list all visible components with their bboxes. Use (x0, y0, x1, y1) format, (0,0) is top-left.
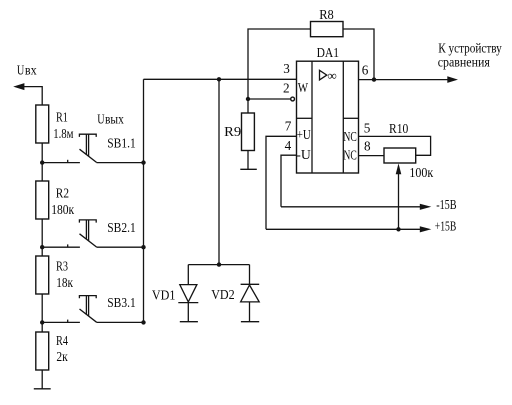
node diode branch junction (217, 77, 221, 81)
switch SB1.1 (42, 134, 96, 162)
svg-text:U: U (17, 63, 25, 78)
wire down to diodes (218, 79, 220, 264)
VD1 bottom terminal (180, 321, 198, 323)
svg-text:SB3.1: SB3.1 (107, 295, 135, 310)
wire diode tee (188, 264, 249, 266)
node R3-R4 junction (40, 320, 44, 324)
switch SB3.1 (42, 296, 96, 323)
svg-text:2: 2 (283, 81, 290, 96)
wire bus to pin 3 (144, 78, 297, 80)
svg-text:SB2.1: SB2.1 (107, 220, 135, 235)
node R1-R2 junction (40, 160, 44, 164)
wire pin 6 output (359, 79, 449, 81)
svg-text:-15В: -15В (436, 197, 457, 212)
ground (bottom of R4) (34, 388, 51, 390)
VD2 bottom terminal (241, 321, 259, 323)
svg-text:W: W (298, 80, 309, 95)
wire +15V rail (266, 228, 421, 230)
resistor R2 (36, 181, 49, 219)
wire wiper to +15V rail (398, 172, 400, 229)
node SB3.1-bus junction (141, 320, 145, 324)
svg-text:VD2: VD2 (211, 287, 235, 302)
svg-text:1.8м: 1.8м (53, 126, 74, 141)
wire feedback right leg (343, 29, 374, 80)
svg-text:U: U (97, 112, 105, 127)
svg-text:6: 6 (362, 63, 369, 78)
svg-text:+U: +U (297, 127, 311, 142)
node pin2/R9/R8 junction (246, 97, 250, 101)
resistor R10 (384, 148, 416, 163)
node R2-R3 junction (40, 245, 44, 249)
svg-text:R9: R9 (224, 124, 241, 139)
node diode tee junction (217, 262, 221, 266)
svg-text:5: 5 (364, 121, 371, 136)
svg-text:R3: R3 (56, 259, 68, 274)
wire R3 to R4 (41, 294, 43, 332)
svg-text:VD1: VD1 (152, 288, 176, 303)
pin 2 inversion bubble (291, 97, 295, 101)
svg-text:вх: вх (25, 63, 37, 78)
resistor R1 (36, 105, 49, 143)
svg-text:4: 4 (285, 138, 292, 153)
svg-text:+15В: +15В (435, 219, 457, 234)
output arrow (447, 76, 458, 83)
svg-text:NC: NC (343, 129, 357, 144)
svg-text:100к: 100к (409, 165, 433, 180)
wire output bus vertical (143, 79, 145, 322)
diode VD1 (178, 265, 198, 322)
wire R9 to ground (247, 151, 249, 170)
switch SB2.1 (42, 220, 96, 247)
resistor R4 (36, 332, 49, 370)
wire SB1.1 to bus (97, 162, 144, 164)
svg-text:∞: ∞ (327, 68, 336, 83)
wire feedback left leg (248, 29, 311, 99)
svg-text:180к: 180к (51, 202, 75, 217)
svg-text:8: 8 (364, 138, 371, 153)
node wiper junction (396, 227, 400, 231)
wire node to R9 (247, 99, 249, 113)
svg-text:SB1.1: SB1.1 (107, 135, 135, 150)
resistor R9 (242, 113, 255, 151)
wire -15V rail (281, 206, 421, 208)
svg-text:R8: R8 (319, 7, 334, 22)
svg-text:2к: 2к (56, 349, 68, 364)
svg-text:DA1: DA1 (317, 45, 339, 60)
wire SB2.1 to bus (97, 246, 144, 248)
wire SB3.1 to bus (97, 321, 144, 323)
svg-text:R4: R4 (56, 333, 68, 348)
wire R2 to R3 (41, 219, 43, 256)
svg-text:вых: вых (105, 112, 124, 127)
svg-text:7: 7 (285, 118, 292, 133)
+15V arrow (420, 226, 432, 232)
wire pin 8 to R10 left (359, 155, 385, 157)
svg-text:NC: NC (343, 148, 357, 163)
diode VD2 (241, 265, 260, 322)
svg-text:R1: R1 (56, 109, 68, 124)
wire pin 7 to +15V rail (266, 136, 297, 229)
wire pin 2 to node (248, 98, 291, 100)
node feedback-output junction (372, 77, 376, 81)
wire Uvx to R1 (22, 87, 42, 105)
resistor R3 (36, 256, 49, 294)
op-amp DA1 (296, 61, 358, 173)
wire pin 4 to -15V rail (281, 155, 297, 207)
ground (bottom of R9) (240, 168, 256, 170)
R10 wiper arrow (396, 163, 402, 174)
node SB1.1-bus junction (141, 160, 145, 164)
svg-text:3: 3 (283, 61, 290, 76)
wire R4 to ground (41, 370, 43, 389)
svg-text:-U: -U (296, 147, 311, 162)
node SB2.1-bus junction (141, 245, 145, 249)
wire R1 to R2 (41, 143, 43, 181)
Uvx arrow (13, 83, 24, 90)
-15V arrow (420, 204, 432, 210)
svg-text:R10: R10 (389, 121, 409, 136)
wire pin 5 to R10 right (359, 136, 431, 155)
resistor R8 (311, 22, 344, 37)
svg-text:R2: R2 (56, 186, 69, 201)
svg-text:сравнения: сравнения (438, 54, 490, 69)
svg-text:18к: 18к (56, 275, 73, 290)
